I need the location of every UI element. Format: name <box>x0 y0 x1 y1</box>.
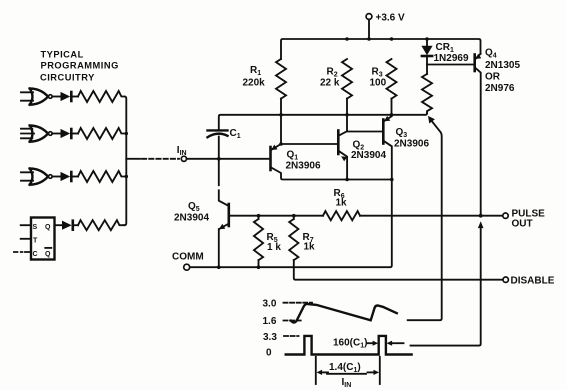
NOR gate G1 <box>21 89 52 105</box>
dashes 1.6 <box>284 320 303 322</box>
svg-text:220k: 220k <box>243 78 266 89</box>
svg-text:2N3904: 2N3904 <box>174 213 209 224</box>
dimension arrow right <box>368 370 380 375</box>
wire +3.6V drop <box>368 19 370 39</box>
wire R6 right to PULSE OUT <box>360 215 503 217</box>
node capline-R3 <box>390 113 394 117</box>
node I_IN terminal <box>181 156 186 161</box>
diode D4 <box>62 221 78 230</box>
resistor row3 <box>78 171 126 182</box>
svg-text:OR: OR <box>485 72 501 83</box>
svg-text:3.0: 3.0 <box>263 299 277 310</box>
svg-text:C: C <box>33 251 38 258</box>
svg-text:PROGRAMMING: PROGRAMMING <box>41 61 119 71</box>
node Q4 collector on pulse line <box>479 214 483 218</box>
diode D2 <box>61 129 79 138</box>
node Q5 emitter on COMM <box>217 265 221 269</box>
+3.6V terminal <box>366 14 372 20</box>
svg-text:Q: Q <box>45 224 51 231</box>
node COMM terminal <box>184 264 190 270</box>
node R5 top <box>257 214 261 218</box>
wire R1 bottom to Q1 emitter junction <box>280 99 282 144</box>
resistor R6 <box>323 211 360 220</box>
variable resistor R4 <box>422 74 432 113</box>
resistor R1 <box>276 59 286 99</box>
resistor row4 <box>78 220 125 230</box>
svg-text:22 k: 22 k <box>320 78 340 89</box>
svg-text:S: S <box>33 224 38 231</box>
diode CR1 <box>421 39 432 74</box>
diode D3 <box>61 172 79 181</box>
svg-text:DISABLE: DISABLE <box>511 275 555 286</box>
wire S input <box>21 224 31 226</box>
resistor R5 <box>254 216 263 268</box>
node C1/Q5 tap on I_IN line <box>217 157 221 161</box>
svg-text:1k: 1k <box>304 242 316 253</box>
svg-text:T: T <box>33 237 38 244</box>
node DISABLE terminal <box>503 277 508 282</box>
svg-text:OUT: OUT <box>512 219 533 230</box>
capacitor C1 <box>208 130 228 137</box>
svg-text:2N3906: 2N3906 <box>394 138 429 149</box>
dimension tick left <box>315 357 317 384</box>
node capline-R2 <box>345 113 349 117</box>
node capline-R1 <box>279 113 283 117</box>
NOR gate G2 <box>21 126 52 142</box>
node Q3 collector on Q1 collector line <box>390 178 394 182</box>
arrow 160 right <box>367 341 378 346</box>
resistor row2 <box>78 128 126 139</box>
svg-text:1.6: 1.6 <box>263 316 277 327</box>
node rail-R2 <box>345 37 349 41</box>
wire dashed to I_IN <box>142 158 179 160</box>
svg-text:100: 100 <box>370 78 387 89</box>
dimension tick right <box>379 357 381 384</box>
node R7 top <box>292 214 296 218</box>
wire R7 bottom to DISABLE <box>294 260 503 280</box>
svg-text:CIRCUITRY: CIRCUITRY <box>40 72 95 82</box>
wire top rail <box>281 39 481 59</box>
svg-text:COMM: COMM <box>172 252 204 263</box>
node R5 bottom on COMM <box>257 265 261 269</box>
svg-text:3.3: 3.3 <box>263 332 277 343</box>
resistor row1 <box>78 91 125 102</box>
node bus-row2 <box>125 132 129 136</box>
transistor Q4 <box>475 54 482 214</box>
diode D1 <box>61 92 79 101</box>
wire I_IN to Q1 base <box>187 158 271 160</box>
wire bus to I_IN stub <box>126 158 140 160</box>
label PULSE OUT <box>512 209 546 230</box>
svg-text:2N976: 2N976 <box>485 83 515 94</box>
NOR gate G3 <box>21 169 52 185</box>
svg-text:0: 0 <box>266 347 272 358</box>
sawtooth waveform <box>291 304 397 323</box>
resistor R3 <box>387 59 397 99</box>
svg-text:1k: 1k <box>336 198 348 209</box>
svg-text:1 k: 1 k <box>267 242 281 253</box>
annotation arrow to PULSE OUT (pulse feedback) <box>411 221 484 345</box>
dashes 3.0 <box>284 302 313 304</box>
svg-text:2N1305: 2N1305 <box>485 60 520 71</box>
transistor Q2 <box>338 131 347 180</box>
wire capline C1 to R4 bottom <box>219 113 427 130</box>
dashes 3.3 <box>284 335 299 337</box>
wire C input (dash-dot) <box>14 251 31 253</box>
wire R3 bottom <box>391 99 393 115</box>
node PULSE OUT terminal <box>503 213 508 218</box>
transistor Q5 <box>219 204 229 267</box>
svg-text:TYPICAL: TYPICAL <box>41 49 84 59</box>
node Q1 emitter/R1/Q2-base <box>279 142 283 146</box>
title: TYPICAL PROGRAMMING CIRCUITRY <box>40 49 119 82</box>
svg-text:2N3906: 2N3906 <box>286 161 321 172</box>
label Q4 2N1305 OR 2N976 <box>485 48 520 95</box>
dimension arrow left <box>317 370 329 375</box>
wire G2 output <box>52 133 61 135</box>
flip-flop U1 <box>31 218 55 260</box>
bus vertical <box>124 97 126 226</box>
wire pulse line (Q5 base / R5 / R7 / R6 left) <box>229 215 323 217</box>
transistor Q1 <box>271 144 392 180</box>
resistor R2 <box>342 59 352 99</box>
wire Q2 base <box>281 143 337 145</box>
svg-text:+3.6 V: +3.6 V <box>376 13 406 24</box>
wire T input <box>21 238 31 240</box>
pulse waveform <box>286 336 412 355</box>
node Q2 emitter on collector line <box>345 178 349 182</box>
node bus-row3 <box>125 175 129 179</box>
node rail-supply <box>367 37 371 41</box>
annotation arrow to R4 wiper (sawtooth feedback) <box>408 116 442 320</box>
wire G1 output <box>52 96 61 98</box>
resistor R7 <box>289 216 298 260</box>
svg-text:2N3904: 2N3904 <box>351 150 386 161</box>
wire Q output <box>55 224 63 226</box>
wire G3 output <box>52 176 61 178</box>
node rail-CR1 <box>425 37 429 41</box>
svg-text:Q: Q <box>45 251 51 258</box>
transistor Q3 <box>190 116 392 267</box>
label 1.4(C1) fraction <box>327 362 366 389</box>
wire Q4 base from CR1 <box>427 64 474 66</box>
wire R2 bottom <box>346 99 348 132</box>
node rail-R3 <box>390 37 394 41</box>
wire Q3 base from Q2 collector <box>347 131 383 133</box>
wire C1 bottom lead <box>219 137 229 207</box>
svg-text:1N2969: 1N2969 <box>434 53 469 64</box>
arrow pulse2 left <box>387 341 404 346</box>
